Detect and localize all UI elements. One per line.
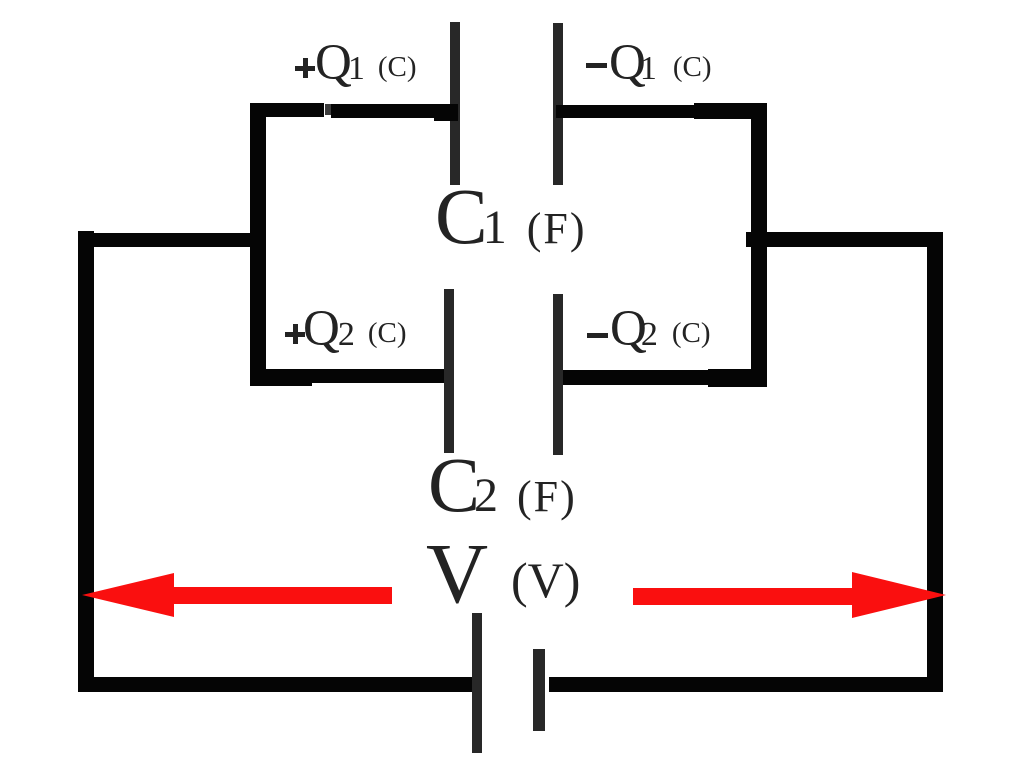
label V [426,530,488,616]
wire bottom-left horizontal to battery positive plate [78,677,476,692]
capacitor C1 right plate [553,23,563,185]
label -Q1 (C) [586,38,712,89]
wire from C1 right plate to upper-right corner, left segment [556,105,696,118]
wire inner-left vertical [250,103,266,385]
wire corner chunk at inner-left junction [250,369,312,386]
battery V negative (short) plate [533,649,545,731]
battery V positive (long) plate [472,613,482,753]
capacitor C2 left plate [444,289,454,453]
red arrow right shaft [633,588,852,605]
wire from C1 left plate to upper-left corner, left segment [250,103,324,117]
capacitor C2 right plate [553,294,563,455]
wire from inner-left vertical to C2 left plate [250,369,453,383]
wire seam overlap mark [325,104,331,115]
wire middle-right horizontal (node B branch) [746,232,943,247]
red arrow left shaft [174,587,392,604]
wire from C1 right plate to upper-right corner, right segment [694,103,767,119]
capacitor C1 left plate [450,22,460,185]
wire from C2 right plate to inner-right vertical [556,370,767,385]
label -Q2 (C) [587,304,711,355]
label +Q1 (C) [295,38,417,89]
red arrow left head [82,573,174,617]
wire bottom-right horizontal from battery negative plate [549,677,943,692]
label (V) [511,555,580,605]
wire corner chunk at inner-right junction [708,369,767,387]
wire from C1 left plate to upper-left corner, right segment [331,104,458,118]
wire outer-right vertical [927,232,943,692]
red arrow right head [852,572,946,618]
label C1 (F) [435,178,586,257]
label +Q2 (C) [285,304,407,355]
wire inner-right vertical [751,103,767,387]
wire end block under C1 left plate [434,104,458,121]
label C2 (F) [428,446,577,524]
wire outer-left vertical [78,231,94,692]
wire middle-left horizontal (node A branch) [78,233,266,247]
